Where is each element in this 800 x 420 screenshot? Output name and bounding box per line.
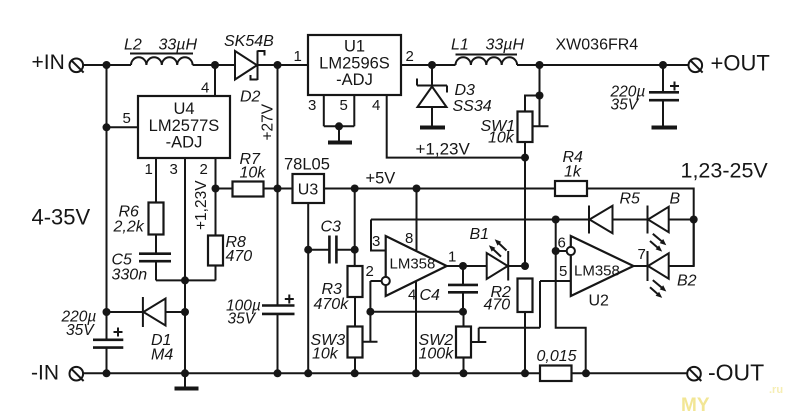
svg-text:1: 1 — [294, 48, 302, 65]
svg-text:-ADJ: -ADJ — [166, 134, 203, 152]
junction LED row / pin6 vertical — [552, 216, 560, 224]
svg-text:4-35V: 4-35V — [32, 205, 91, 230]
capacitor C3 — [308, 236, 355, 264]
value label 220µ 35V input — [61, 309, 97, 340]
svg-text:4: 4 — [201, 80, 209, 97]
wire D2 to U1 pin1 — [258, 64, 309, 66]
junction SW1 wiper — [536, 92, 544, 100]
wire LED row from pin6 vertical to R5 — [556, 219, 589, 221]
junction rail x308 — [304, 369, 312, 377]
svg-text:100k: 100k — [419, 346, 455, 363]
junction pin5 / input vertical — [103, 123, 111, 131]
svg-text:C4: C4 — [420, 287, 441, 304]
resistor R2 470 — [518, 279, 533, 313]
op-amp U1a LM358 — [386, 236, 447, 296]
junction U4 pin4 tap — [211, 61, 219, 69]
svg-text:330n: 330n — [112, 267, 148, 284]
capacitor C4 — [448, 266, 478, 312]
svg-text:2: 2 — [200, 161, 208, 178]
svg-text:+IN: +IN — [32, 51, 65, 74]
svg-text:3: 3 — [170, 161, 178, 178]
junction output cap tap — [659, 61, 667, 69]
svg-text:D2: D2 — [240, 89, 261, 106]
resistor R4 1k — [555, 181, 587, 196]
wire L1 to +OUT — [517, 64, 689, 66]
svg-text:33µH: 33µH — [159, 37, 198, 54]
svg-text:U2: U2 — [589, 293, 610, 310]
shunt resistor 0,015 — [540, 366, 572, 382]
IC U4 box LM2577S — [138, 96, 230, 158]
wire R4 right to LED column corner — [587, 189, 694, 267]
wire SW1 bottom chain down — [524, 142, 526, 373]
svg-text:8: 8 — [405, 230, 413, 247]
svg-text:+5V: +5V — [366, 170, 396, 188]
svg-text:35V: 35V — [611, 97, 640, 114]
svg-text:XW036FR4: XW036FR4 — [556, 37, 639, 54]
svg-text:C3: C3 — [321, 219, 342, 236]
pin 4 wire (V-) to rail — [415, 281, 417, 373]
svg-text:0,015: 0,015 — [537, 348, 577, 365]
wire U3 bottom vertical to rail — [307, 203, 309, 373]
wire sense row SW3 wiper to SW2/C4 — [370, 311, 463, 313]
ground (U1 pins 3,5) — [328, 141, 352, 145]
diode D3 SS34 (schottky, to ground) — [417, 65, 447, 126]
LED B — [648, 206, 694, 252]
capacitor 100µ 35V — [262, 295, 295, 314]
wire +5V down to R3 — [354, 189, 356, 267]
op-amp U2 LM358 — [571, 236, 634, 296]
junction rail x354.7 — [351, 369, 359, 377]
wire bottom rail right to -OUT — [572, 372, 688, 374]
junction C3 right — [351, 246, 359, 254]
terminal -IN — [70, 367, 84, 381]
svg-text:4: 4 — [408, 287, 416, 304]
value label L1 33µH — [451, 37, 525, 54]
value label 100µ 35V — [226, 298, 261, 328]
wire R7 row left — [216, 188, 233, 190]
svg-text:U3: U3 — [298, 182, 319, 199]
svg-text:2: 2 — [406, 48, 414, 65]
svg-text:1k: 1k — [564, 164, 582, 181]
wire pin6 vertical down to shunt right — [556, 220, 586, 374]
IC U3 box 78L05 — [293, 174, 325, 203]
svg-text:5: 5 — [123, 110, 131, 127]
junction rail x525 — [521, 369, 529, 377]
junction +5V row / R3-C3 vertical — [351, 185, 359, 193]
op-amp U1 box LM2596S — [308, 35, 401, 95]
svg-text:1: 1 — [448, 249, 456, 266]
wire L2 to D2 — [193, 64, 235, 66]
svg-text:M4: M4 — [151, 347, 173, 364]
svg-text:2: 2 — [366, 263, 374, 280]
svg-text:7: 7 — [638, 246, 646, 263]
pin 6 wire with inversion circle — [556, 247, 575, 255]
svg-text:LM358: LM358 — [390, 256, 436, 273]
ground (D3) — [420, 126, 445, 130]
trimmer SW3 10k — [348, 312, 378, 374]
pin 3 wire (non-inv) — [371, 220, 386, 251]
terminal +IN — [70, 59, 84, 73]
svg-text:L1: L1 — [451, 37, 469, 54]
trimmer SW1 10k — [518, 65, 549, 142]
junction pins 3/5 — [335, 122, 343, 130]
svg-text:3: 3 — [372, 233, 380, 250]
wire U1 pin4 feedback to +1,23V node — [387, 95, 524, 158]
capacitor 220µ 35V input — [93, 328, 123, 348]
svg-text:-IN: -IN — [31, 362, 59, 385]
wire left input vertical — [106, 65, 108, 373]
junction sense row left — [366, 308, 374, 316]
svg-text:5: 5 — [340, 97, 348, 114]
pin 2 wire (inv) with inversion circle — [370, 277, 389, 312]
svg-text:470: 470 — [226, 248, 253, 265]
svg-text:LM2577S: LM2577S — [149, 117, 220, 135]
wire U3 out to R4 (+5V row) — [324, 188, 555, 190]
resistor R6 2,2k — [149, 203, 164, 235]
wire LED row left segment to op-amp pin3 — [371, 219, 556, 221]
inductor L1 — [456, 55, 518, 66]
svg-text:470k: 470k — [314, 296, 350, 313]
wire U4 pin5 — [107, 126, 139, 128]
svg-text:-ADJ: -ADJ — [336, 71, 373, 89]
svg-text:2,2k: 2,2k — [113, 219, 145, 236]
junction +27V vertical / R7 row — [274, 185, 282, 193]
wire U1 pins 3+5 to ground — [324, 95, 355, 141]
junction rail x277.5 — [274, 369, 282, 377]
resistor R7 10k — [233, 182, 264, 197]
svg-text:10k: 10k — [240, 165, 267, 182]
pin 5 wire — [540, 280, 571, 282]
pin 1 output wire — [447, 265, 487, 267]
terminal -OUT — [687, 367, 701, 381]
svg-text:U1: U1 — [344, 38, 365, 56]
svg-text:1: 1 — [145, 161, 153, 178]
wire U4 pin2 feedback stub — [215, 158, 217, 236]
junction rail x463.5 — [460, 369, 468, 377]
inductor L2 — [130, 54, 193, 66]
wire U4 pin3 vertical to bottom rail — [184, 158, 186, 373]
wire +27V vertical — [277, 65, 279, 373]
wire R3 to SW3 — [354, 297, 356, 327]
junction rail / shunt right — [582, 369, 590, 377]
ground (output cap) — [652, 126, 678, 130]
svg-text:78L05: 78L05 — [284, 156, 330, 174]
junction C5 row / U4 pin3 vertical — [181, 276, 189, 284]
svg-text:1,23-25V: 1,23-25V — [681, 159, 769, 183]
diode D1 M4 — [107, 297, 186, 327]
svg-text:SK54B: SK54B — [224, 33, 274, 50]
svg-text:D3: D3 — [455, 82, 476, 99]
ground (main rail) — [175, 373, 199, 388]
pin 7 output wire — [634, 265, 648, 267]
junction pin3 vertical / D1 row — [181, 308, 189, 316]
svg-text:-OUT: -OUT — [708, 360, 764, 386]
wire U1 pin2 out to L1 — [401, 64, 456, 66]
LED B2 — [648, 220, 694, 298]
wire R8 bottom — [215, 266, 217, 281]
junction rail x185 (ground tap) — [181, 369, 189, 377]
junction SW1 top tap — [536, 61, 544, 69]
svg-text:.ru: .ru — [769, 384, 783, 396]
svg-text:+OUT: +OUT — [711, 51, 770, 76]
capacitor C5 330n — [139, 235, 171, 281]
svg-text:33µH: 33µH — [486, 37, 525, 54]
diode D2 SK54B (schottky) — [235, 51, 265, 81]
svg-text:L2: L2 — [124, 37, 142, 54]
LED B1 — [487, 239, 525, 280]
svg-text:MY: MY — [681, 395, 710, 416]
svg-text:SS34: SS34 — [453, 98, 492, 115]
svg-text:10k: 10k — [488, 130, 515, 147]
svg-text:LM2596S: LM2596S — [319, 55, 390, 73]
value label L2 33µH — [124, 37, 198, 54]
junction sense row right — [459, 308, 467, 316]
svg-text:35V: 35V — [66, 322, 95, 339]
capacitor 220µ 35V output — [649, 65, 679, 126]
junction rail x106.5 — [103, 369, 111, 377]
junction D3 tap — [428, 61, 436, 69]
wire bottom rail left — [83, 372, 540, 374]
svg-text:+1,23V: +1,23V — [416, 140, 471, 159]
svg-text:5: 5 — [559, 263, 567, 280]
terminal +OUT — [689, 59, 703, 73]
svg-text:B2: B2 — [677, 273, 697, 290]
svg-text:4: 4 — [372, 97, 380, 114]
svg-text:B: B — [670, 191, 681, 208]
trimmer SW2 100k — [456, 281, 540, 373]
wire R7 to U3 — [264, 188, 293, 190]
junction pin2 / R7 row — [212, 185, 220, 193]
diode R5 — [589, 206, 648, 234]
resistor R8 470 — [208, 236, 223, 266]
junction output / C4 — [459, 262, 467, 270]
svg-text:+1,23V: +1,23V — [193, 180, 210, 230]
svg-text:U4: U4 — [173, 100, 194, 118]
svg-text:10k: 10k — [312, 346, 339, 363]
svg-text:6: 6 — [558, 235, 566, 252]
svg-text:470: 470 — [484, 297, 511, 314]
svg-text:R5: R5 — [620, 191, 641, 208]
junction rail x416 — [412, 369, 420, 377]
junction D1 row / input vertical — [103, 308, 111, 316]
wire top rail: +IN terminal to L2 — [83, 64, 131, 66]
resistor R3 470k — [348, 266, 363, 297]
svg-text:+27V: +27V — [260, 103, 277, 140]
junction top rail / left input vertical — [103, 61, 111, 69]
wire C5 bottom to R8 bottom — [156, 279, 216, 281]
svg-text:3: 3 — [308, 97, 316, 114]
pin 8 wire (V+) — [416, 189, 418, 251]
junction C3 left — [304, 246, 312, 254]
junction +5V row / op-amp pin8 — [413, 185, 421, 193]
junction LED column — [690, 216, 698, 224]
junction +1,23V / SW1 chain — [521, 154, 529, 162]
svg-text:35V: 35V — [228, 311, 257, 328]
svg-text:LM358: LM358 — [574, 263, 620, 280]
wire U4 pin4 to top rail — [214, 65, 216, 96]
wire U4 pin1 to R6 — [155, 158, 157, 203]
junction B1 / R2 / SW1 chain — [521, 262, 529, 270]
value label 220µ 35V — [610, 84, 646, 114]
svg-text:B1: B1 — [470, 226, 490, 243]
junction pin6 tap — [552, 247, 560, 255]
junction +27V tap — [274, 61, 282, 69]
